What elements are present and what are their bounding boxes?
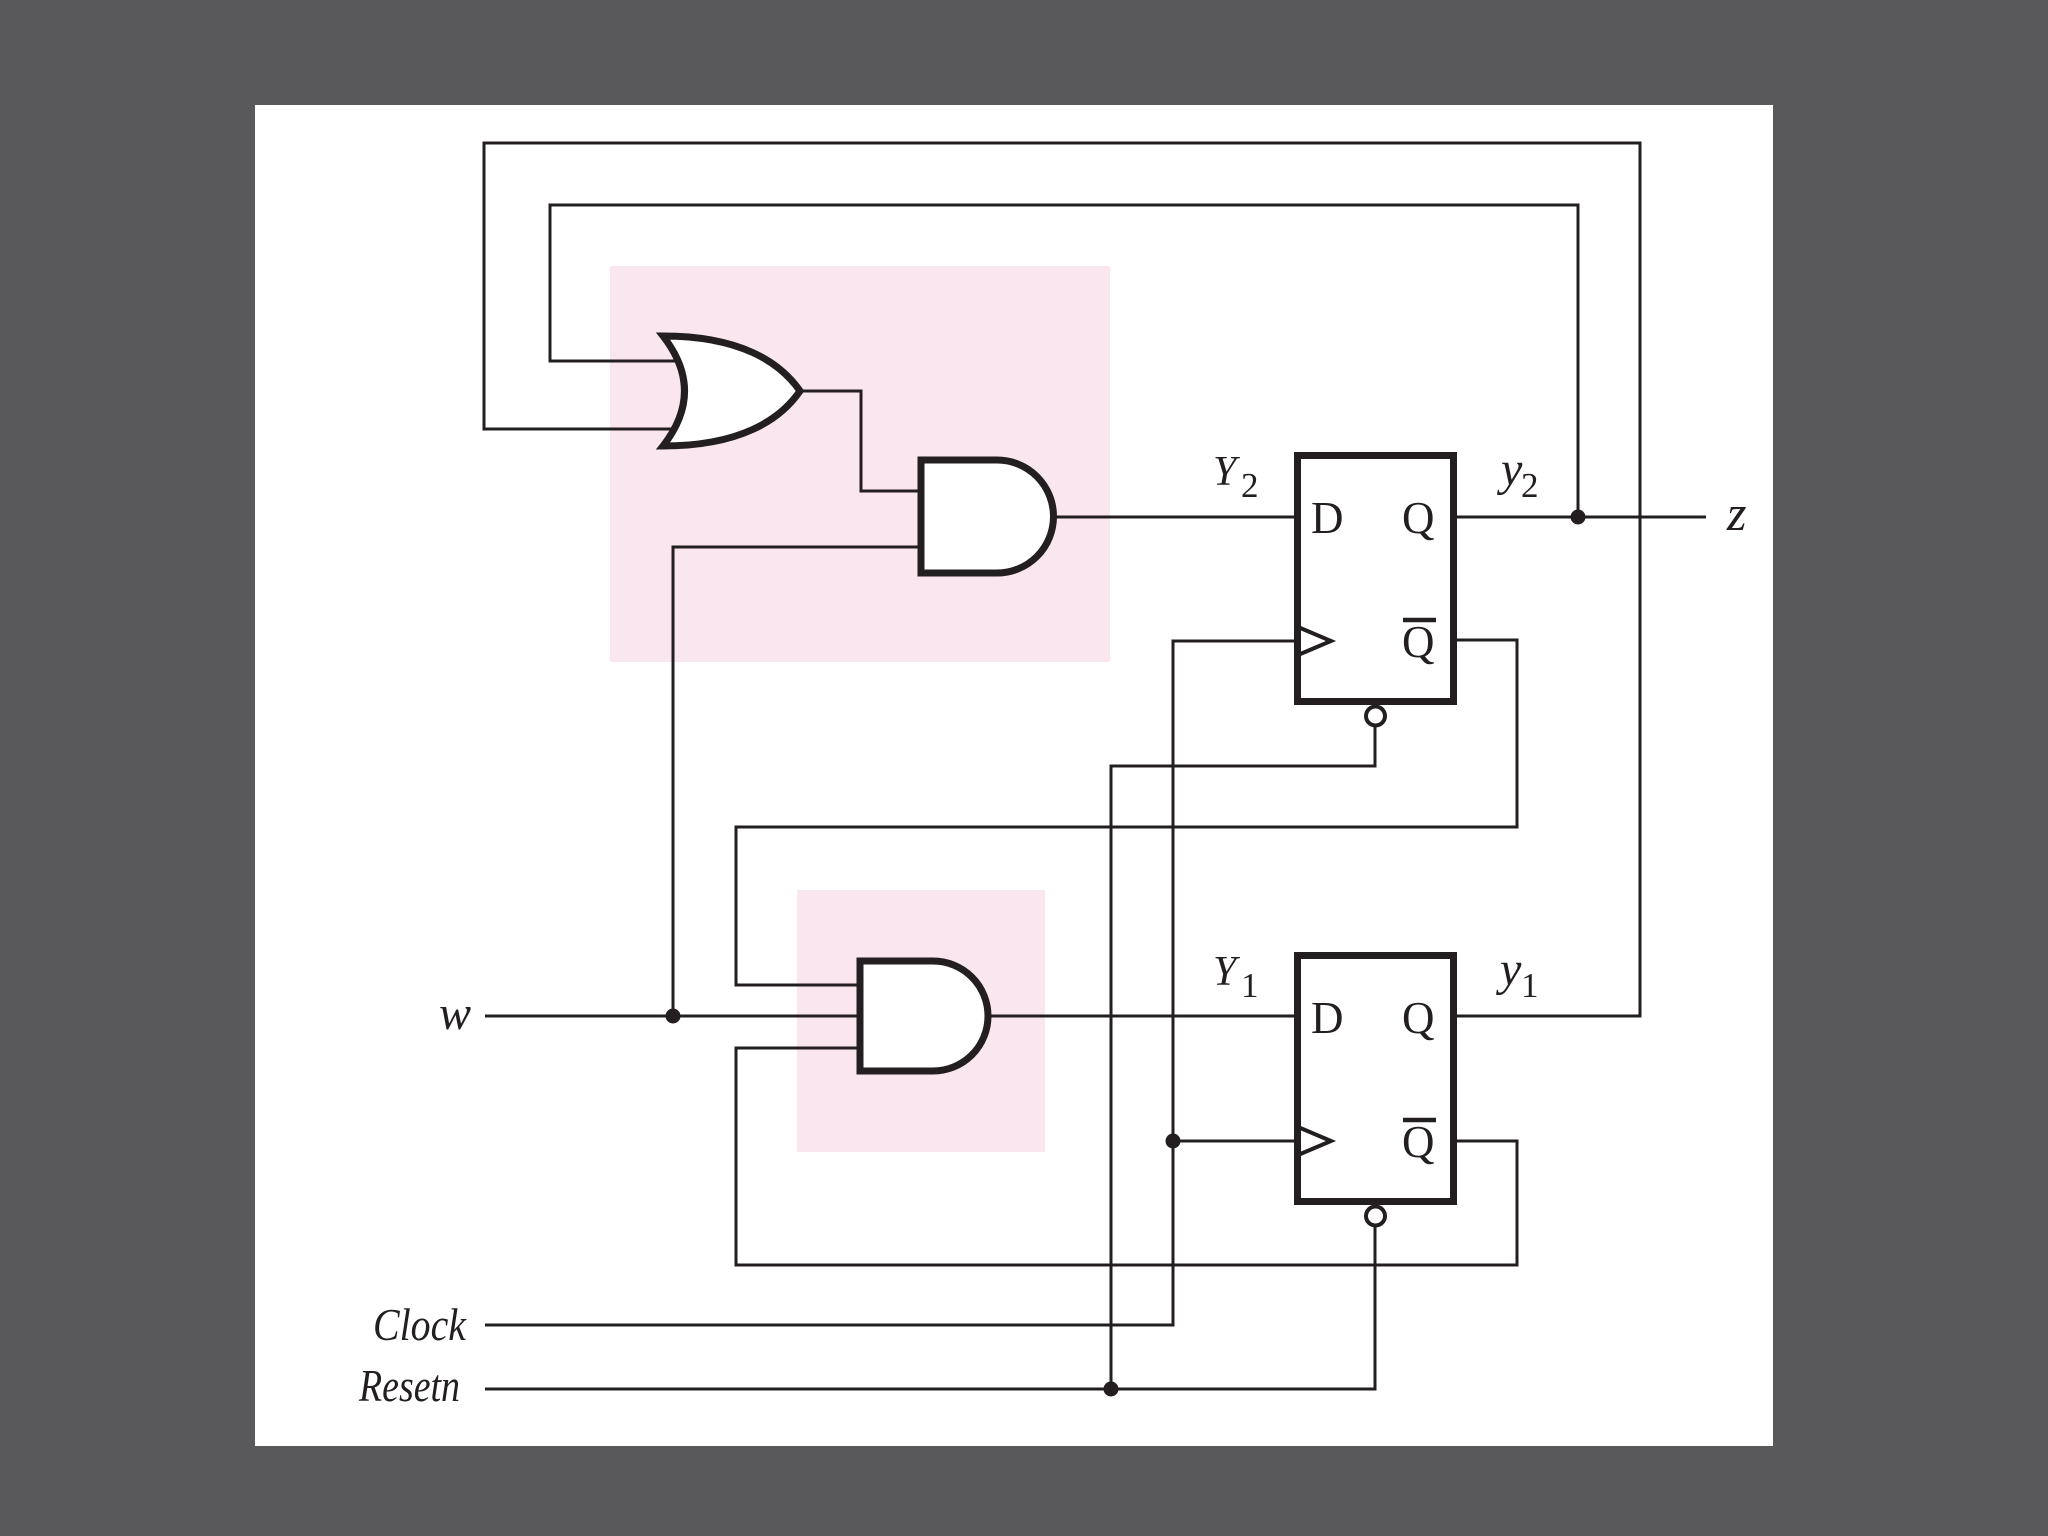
svg-text:2: 2 <box>1241 466 1259 505</box>
highlight region: next-state logic for Y1 <box>797 890 1045 1152</box>
wire: Resetn line to FF1 reset bubble <box>485 1227 1375 1389</box>
clock triangle of U1 <box>1298 1127 1331 1155</box>
svg-text:Q: Q <box>1402 617 1435 667</box>
svg-text:D: D <box>1311 993 1344 1043</box>
clock triangle of U2 <box>1298 627 1331 655</box>
wire: FF1 Qbar to AND gate G3 bottom input <box>736 1048 1517 1265</box>
junction node: resetn fanout <box>1104 1382 1119 1397</box>
svg-text:y: y <box>1495 943 1522 996</box>
junction node: z output tap <box>1571 510 1586 525</box>
wire: y2 feedback from z node to OR gate upper input <box>550 205 1578 517</box>
svg-text:z: z <box>1726 485 1746 541</box>
svg-text:Q: Q <box>1402 1117 1435 1167</box>
flip-flop U2 (state bit y2) <box>1298 456 1454 702</box>
svg-text:Q: Q <box>1402 493 1435 543</box>
svg-text:D: D <box>1311 493 1344 543</box>
svg-text:1: 1 <box>1241 966 1259 1005</box>
wire: y2 / z output net from FF2 Q <box>1457 516 1706 519</box>
reset bubble of U1 <box>1366 1207 1385 1226</box>
wire: OR gate output to AND gate G2 upper input <box>798 391 926 491</box>
junction node: w fanout <box>666 1009 681 1024</box>
wire: Y2 net, AND G2 output to FF2 D input <box>1051 516 1294 519</box>
wire: y1 feedback from FF1 Q to OR gate lower input <box>484 143 1640 1016</box>
reset bubble of U2 <box>1366 707 1385 726</box>
wire: w input line to AND gate G3 middle input <box>485 1015 864 1018</box>
svg-text:Q: Q <box>1402 993 1435 1043</box>
wire: clock branch to FF1 clock input <box>1173 1140 1294 1143</box>
wire: w branch up to AND gate G2 lower input <box>673 547 926 1016</box>
and-gate G3 (3-input) <box>860 961 988 1071</box>
and-gate G2 <box>921 460 1054 573</box>
flip-flop U1 (state bit y1) <box>1298 956 1454 1202</box>
svg-text:y: y <box>1496 443 1523 496</box>
wire: Resetn branch to FF2 reset bubble <box>1111 727 1375 1389</box>
or-gate G1 <box>663 336 800 446</box>
junction node: clock fanout <box>1166 1134 1181 1149</box>
wire: Y1 net, AND G3 output to FF1 D input <box>986 1015 1294 1018</box>
svg-text:Resetn: Resetn <box>358 1360 460 1411</box>
svg-text:w: w <box>439 987 471 1040</box>
wire: Clock line to FF2 clock input <box>485 641 1294 1325</box>
svg-text:2: 2 <box>1521 466 1539 505</box>
svg-text:Clock: Clock <box>373 1299 467 1350</box>
highlight region: next-state logic for Y2 <box>610 266 1110 662</box>
wire: FF2 Qbar to AND gate G3 top input <box>736 640 1517 985</box>
svg-text:1: 1 <box>1521 966 1539 1005</box>
